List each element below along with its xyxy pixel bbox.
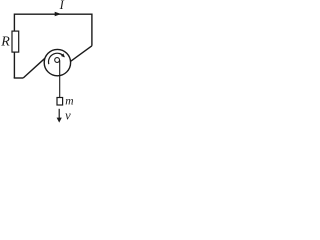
wire left upper [13, 14, 15, 32]
resistor R [12, 31, 19, 52]
rotation arc [48, 53, 64, 64]
current arrow [55, 12, 62, 17]
velocity arrow [58, 109, 60, 119]
wire left lower [13, 52, 15, 78]
svg-text:R: R [0, 35, 10, 50]
svg-text:m: m [65, 96, 73, 108]
pulley wheel [44, 49, 70, 75]
wire top [14, 13, 92, 15]
svg-text:I: I [59, 0, 65, 12]
wire diagonal right [71, 46, 92, 61]
svg-text:v: v [65, 109, 71, 123]
string [59, 60, 61, 97]
mass block [57, 98, 63, 106]
pulley axle [55, 58, 60, 63]
wire right [91, 14, 93, 46]
velocity arrowhead [57, 118, 62, 123]
wire bottom short [14, 77, 24, 79]
wire diagonal left [23, 58, 45, 78]
rotation arrowhead [61, 53, 65, 57]
